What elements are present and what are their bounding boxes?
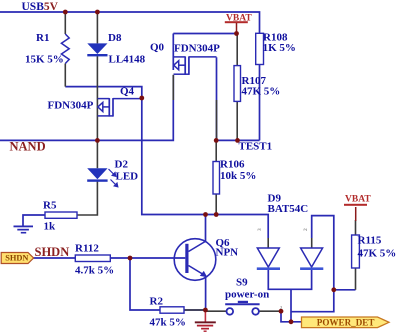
svg-text:R5: R5 bbox=[43, 200, 57, 212]
svg-text:SHDN: SHDN bbox=[35, 245, 70, 259]
svg-text:R112: R112 bbox=[75, 243, 99, 255]
svg-text:POWER_DET: POWER_DET bbox=[317, 318, 375, 328]
svg-text:FDN304P: FDN304P bbox=[174, 43, 220, 55]
svg-text:47k 5%: 47k 5% bbox=[150, 317, 186, 329]
svg-text:R106: R106 bbox=[220, 159, 245, 171]
svg-text:D8: D8 bbox=[108, 32, 122, 44]
svg-text:BAT54C: BAT54C bbox=[268, 203, 309, 215]
svg-text:3: 3 bbox=[257, 228, 263, 231]
svg-text:1k: 1k bbox=[44, 221, 57, 233]
svg-text:LL4148: LL4148 bbox=[109, 54, 146, 66]
svg-text:10k 5%: 10k 5% bbox=[220, 170, 256, 182]
svg-text:4.7k 5%: 4.7k 5% bbox=[75, 265, 114, 277]
svg-text:VBAT: VBAT bbox=[345, 195, 371, 205]
svg-text:1K 5%: 1K 5% bbox=[263, 42, 296, 54]
svg-text:2: 2 bbox=[303, 228, 309, 231]
svg-text:TEST1: TEST1 bbox=[239, 141, 273, 153]
svg-text:VBAT: VBAT bbox=[226, 14, 252, 24]
svg-text:SHDN: SHDN bbox=[5, 254, 28, 263]
svg-text:Q0: Q0 bbox=[150, 42, 165, 54]
svg-text:R2: R2 bbox=[150, 296, 164, 308]
svg-text:15K 5%: 15K 5% bbox=[25, 54, 64, 66]
svg-text:D2: D2 bbox=[115, 159, 129, 171]
svg-text:2: 2 bbox=[280, 305, 283, 310]
svg-text:47K 5%: 47K 5% bbox=[242, 86, 281, 98]
svg-text:NAND: NAND bbox=[10, 139, 46, 153]
svg-text:S9: S9 bbox=[236, 277, 248, 289]
svg-text:Q4: Q4 bbox=[120, 86, 135, 98]
svg-text:FDN304P: FDN304P bbox=[48, 100, 94, 112]
svg-text:NPN: NPN bbox=[216, 247, 239, 259]
svg-text:power-on: power-on bbox=[225, 289, 269, 301]
svg-text:LED: LED bbox=[116, 171, 139, 183]
svg-text:USB5V: USB5V bbox=[22, 1, 59, 13]
svg-text:R1: R1 bbox=[36, 32, 49, 44]
svg-text:47K 5%: 47K 5% bbox=[358, 248, 397, 260]
svg-text:R115: R115 bbox=[358, 235, 382, 247]
